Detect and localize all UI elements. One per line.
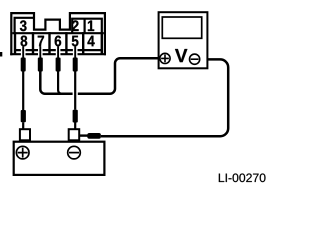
pin number 1 xyxy=(88,21,94,31)
voltmeter plus terminal xyxy=(160,53,170,63)
voltmeter V1 body xyxy=(159,12,208,68)
pin 8 lead wire xyxy=(22,46,24,58)
battery case xyxy=(14,142,105,175)
battery negative symbol xyxy=(68,146,81,159)
voltmeter minus terminal xyxy=(190,54,200,64)
pin 5 lead wire xyxy=(74,46,76,58)
pin number 5 xyxy=(72,36,79,47)
battery positive post xyxy=(20,129,30,140)
pin number 4 xyxy=(87,36,94,46)
pin 8 terminal xyxy=(21,58,26,72)
wire blob to battery negative post xyxy=(79,134,88,136)
wire voltmeter plus to bus xyxy=(78,58,159,93)
battery positive symbol xyxy=(16,146,29,159)
connector J1 bottom border segments xyxy=(10,53,106,55)
pin 7 lead wire xyxy=(39,46,41,58)
figure label LI-00270 xyxy=(219,173,266,182)
bottom row cell bottom borders with pin gaps xyxy=(15,49,102,51)
pin 5 terminal xyxy=(73,58,78,72)
splice on pin 8 wire xyxy=(21,110,26,122)
pin number 6 xyxy=(55,36,61,47)
pin 6 terminal xyxy=(56,58,61,72)
crimp connector blob at battery negative xyxy=(87,133,101,139)
splice on pin 5 wire xyxy=(73,110,78,123)
pin number 3 xyxy=(20,20,27,31)
pin number 7 xyxy=(38,36,44,46)
wire splice to battery negative post xyxy=(74,123,76,130)
pin number 2 xyxy=(72,20,78,31)
pin 6 wire joining bus xyxy=(58,71,62,93)
voltmeter display window xyxy=(162,17,201,38)
voltmeter V label xyxy=(175,49,187,62)
scan artifact left edge xyxy=(0,52,2,57)
pin number 8 xyxy=(21,36,28,47)
bottom row cell walls xyxy=(15,32,102,55)
battery negative post xyxy=(69,129,80,140)
cells pin 2 and pin 1 box xyxy=(72,19,102,34)
cell pin 3 box xyxy=(15,18,34,33)
wire pin 8 to splice xyxy=(22,71,24,110)
connector J1 housing outline xyxy=(11,13,105,55)
wire splice to battery positive post xyxy=(22,122,24,129)
connector row divider xyxy=(12,32,103,34)
pin 7 terminal xyxy=(38,58,43,72)
pin 6 lead wire xyxy=(57,46,59,58)
wire voltmeter minus to battery negative xyxy=(101,59,228,136)
pin 5 wire crossing bus to splice xyxy=(74,71,76,110)
bus wire to pin 7 xyxy=(40,71,72,93)
